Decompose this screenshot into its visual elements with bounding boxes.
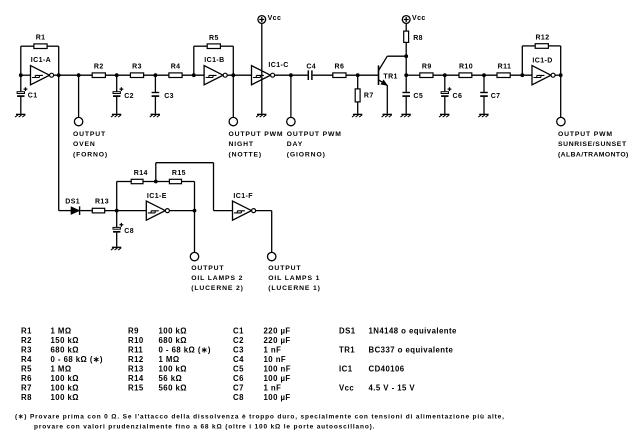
svg-text:IC1-B: IC1-B bbox=[204, 57, 224, 64]
wire bbox=[182, 74, 204, 76]
inverter IC1-A bbox=[31, 66, 50, 85]
svg-text:C6: C6 bbox=[453, 93, 463, 100]
wire bbox=[144, 74, 169, 76]
svg-text:OIL LAMPS 2: OIL LAMPS 2 bbox=[191, 275, 243, 282]
terminal OUTPUT OVEN bbox=[74, 117, 82, 125]
node C5 bbox=[404, 73, 408, 77]
svg-text:R4: R4 bbox=[21, 355, 32, 364]
svg-text:C1: C1 bbox=[28, 93, 38, 100]
svg-text:C4: C4 bbox=[306, 64, 316, 71]
svg-text:R10: R10 bbox=[128, 336, 144, 345]
svg-text:R4: R4 bbox=[171, 63, 181, 70]
capacitor C7 bbox=[483, 75, 485, 92]
svg-text:150 kΩ: 150 kΩ bbox=[51, 336, 79, 345]
wire bbox=[275, 74, 308, 76]
ground bbox=[257, 113, 266, 115]
terminal OUTPUT OIL LAMPS 1 bbox=[268, 252, 276, 260]
svg-text:IC1-F: IC1-F bbox=[233, 193, 253, 200]
svg-text:(FORNO): (FORNO) bbox=[73, 151, 108, 158]
ground bbox=[151, 113, 160, 115]
resistor R4 bbox=[169, 73, 182, 78]
svg-text:DAY: DAY bbox=[287, 141, 303, 148]
resistor R15 bbox=[169, 179, 181, 183]
resistor R8 bbox=[405, 24, 407, 32]
wire bbox=[194, 211, 196, 253]
svg-text:C8: C8 bbox=[233, 393, 244, 402]
wire bbox=[555, 74, 561, 76]
node IC1-B input bbox=[192, 73, 196, 77]
capacitor C5 bbox=[405, 75, 407, 92]
svg-text:R2: R2 bbox=[21, 336, 32, 345]
svg-text:provare con valori prudenzialm: provare con valori prudenzialmente fino … bbox=[34, 423, 375, 430]
svg-text:R13: R13 bbox=[95, 199, 109, 206]
terminal OUTPUT PWM SUNRISE/SUNSET bbox=[557, 117, 565, 125]
svg-text:DS1: DS1 bbox=[65, 199, 80, 206]
node output oven bbox=[77, 73, 81, 77]
svg-text:1N4148 o equivalente: 1N4148 o equivalente bbox=[369, 326, 458, 335]
inverter IC1-B bbox=[204, 66, 223, 85]
wire bbox=[20, 46, 22, 75]
svg-text:R2: R2 bbox=[94, 63, 104, 70]
wire bbox=[405, 56, 407, 75]
svg-text:4.5 V - 15 V: 4.5 V - 15 V bbox=[369, 384, 416, 393]
svg-text:1 MΩ: 1 MΩ bbox=[159, 355, 180, 364]
wire bbox=[143, 181, 169, 183]
svg-text:R9: R9 bbox=[128, 326, 139, 335]
svg-text:Vcc: Vcc bbox=[268, 15, 282, 22]
node IC1-A input bbox=[19, 73, 23, 77]
svg-text:OVEN: OVEN bbox=[73, 141, 96, 148]
svg-text:560 kΩ: 560 kΩ bbox=[159, 384, 187, 393]
terminal OUTPUT PWM NIGHT bbox=[229, 117, 237, 125]
capacitor C3 bbox=[154, 75, 156, 92]
svg-text:C1: C1 bbox=[233, 326, 244, 335]
svg-text:(ALBA/TRAMONTO): (ALBA/TRAMONTO) bbox=[558, 151, 629, 158]
resistor R10 bbox=[459, 73, 472, 78]
svg-text:R11: R11 bbox=[128, 345, 143, 354]
resistor R3 bbox=[130, 73, 143, 78]
wire bbox=[510, 74, 532, 76]
ground bbox=[383, 113, 392, 115]
svg-text:SUNRISE/SUNSET: SUNRISE/SUNSET bbox=[558, 141, 627, 148]
node IC1-D input bbox=[520, 73, 524, 77]
node C2 bbox=[115, 73, 119, 77]
svg-text:R9: R9 bbox=[422, 63, 432, 70]
transistor TR1 bbox=[378, 65, 380, 85]
svg-text:R1: R1 bbox=[21, 326, 32, 335]
node TR1 base bbox=[356, 73, 360, 77]
svg-text:1 nF: 1 nF bbox=[264, 384, 282, 393]
inverter IC1-E bbox=[146, 201, 165, 220]
wire bbox=[80, 210, 92, 212]
node TR1 collector bbox=[404, 54, 408, 58]
ground bbox=[353, 113, 362, 115]
svg-text:R7: R7 bbox=[21, 384, 32, 393]
svg-text:Vcc: Vcc bbox=[339, 384, 354, 393]
svg-text:680 kΩ: 680 kΩ bbox=[51, 345, 79, 354]
terminal OUTPUT OIL LAMPS 2 bbox=[190, 252, 198, 260]
wire bbox=[346, 74, 379, 76]
svg-text:OUTPUT PWM: OUTPUT PWM bbox=[287, 131, 342, 138]
wire bbox=[58, 75, 60, 210]
svg-text:BC337 o equivalente: BC337 o equivalente bbox=[369, 345, 454, 354]
ground bbox=[440, 113, 449, 115]
svg-text:1 MΩ: 1 MΩ bbox=[51, 365, 72, 374]
svg-text:OUTPUT: OUTPUT bbox=[73, 131, 106, 138]
svg-text:R6: R6 bbox=[21, 374, 32, 383]
wire bbox=[227, 74, 251, 76]
svg-text:C5: C5 bbox=[233, 365, 244, 374]
svg-text:IC1: IC1 bbox=[339, 365, 353, 374]
capacitor C6 bbox=[444, 75, 446, 92]
capacitor C8 bbox=[116, 211, 118, 228]
svg-text:OUTPUT: OUTPUT bbox=[268, 265, 301, 272]
resistor R14 bbox=[131, 179, 143, 183]
wire bbox=[220, 45, 233, 47]
resistor R5 bbox=[207, 44, 220, 49]
svg-text:R12: R12 bbox=[535, 34, 549, 41]
svg-text:100 kΩ: 100 kΩ bbox=[51, 384, 79, 393]
svg-text:C2: C2 bbox=[124, 93, 134, 100]
svg-text:R5: R5 bbox=[21, 365, 32, 374]
resistor R1 bbox=[34, 44, 47, 49]
capacitor C1 bbox=[20, 75, 22, 92]
wire bbox=[313, 74, 333, 76]
svg-text:R12: R12 bbox=[128, 355, 144, 364]
wire bbox=[521, 46, 523, 75]
svg-text:R14: R14 bbox=[134, 170, 148, 177]
wire bbox=[78, 75, 80, 117]
svg-text:1 nF: 1 nF bbox=[264, 345, 282, 354]
wire bbox=[116, 182, 118, 211]
node IC1-E input bbox=[115, 209, 119, 213]
svg-text:C7: C7 bbox=[233, 384, 244, 393]
svg-text:220 µF: 220 µF bbox=[264, 326, 291, 335]
svg-text:(∗) Provare prima con 0 Ω. Se: (∗) Provare prima con 0 Ω. Se l'attacco … bbox=[15, 413, 505, 420]
svg-text:TR1: TR1 bbox=[339, 345, 355, 354]
svg-text:100 kΩ: 100 kΩ bbox=[51, 374, 79, 383]
Vcc supply symbol bbox=[258, 16, 266, 24]
wire bbox=[548, 45, 560, 47]
wire bbox=[472, 74, 497, 76]
wire bbox=[433, 74, 459, 76]
svg-text:C8: C8 bbox=[124, 228, 134, 235]
wire bbox=[182, 181, 195, 183]
svg-text:1 MΩ: 1 MΩ bbox=[51, 326, 72, 335]
svg-text:(LUCERNE 2): (LUCERNE 2) bbox=[191, 285, 243, 292]
svg-text:100 kΩ: 100 kΩ bbox=[159, 326, 187, 335]
resistor R9 bbox=[420, 73, 433, 78]
resistor R11 bbox=[497, 73, 510, 78]
svg-text:IC1-D: IC1-D bbox=[532, 58, 552, 65]
wire bbox=[54, 74, 93, 76]
ground bbox=[112, 246, 121, 248]
svg-text:R15: R15 bbox=[172, 170, 186, 177]
node IC1-E output bbox=[193, 209, 197, 213]
svg-text:100 µF: 100 µF bbox=[264, 374, 291, 383]
wire bbox=[193, 46, 195, 75]
svg-text:R8: R8 bbox=[413, 35, 423, 42]
svg-text:R3: R3 bbox=[132, 63, 142, 70]
svg-text:(LUCERNE 1): (LUCERNE 1) bbox=[268, 285, 320, 292]
svg-text:R8: R8 bbox=[21, 393, 32, 402]
node IC1-D output bbox=[559, 73, 563, 77]
svg-text:TR1: TR1 bbox=[383, 73, 397, 80]
svg-text:100 kΩ: 100 kΩ bbox=[159, 365, 187, 374]
wire bbox=[21, 74, 31, 76]
svg-text:R10: R10 bbox=[459, 63, 473, 70]
svg-text:0 - 68 kΩ (∗): 0 - 68 kΩ (∗) bbox=[51, 355, 103, 364]
svg-text:56 kΩ: 56 kΩ bbox=[159, 374, 183, 383]
node IC1-A output bbox=[57, 73, 61, 77]
resistor R13 bbox=[92, 208, 104, 213]
svg-text:C7: C7 bbox=[491, 93, 501, 100]
svg-text:R14: R14 bbox=[128, 374, 144, 383]
node C6 bbox=[443, 73, 447, 77]
diode DS1 bbox=[71, 207, 79, 214]
inverter IC1-F bbox=[233, 201, 252, 220]
svg-text:100 kΩ: 100 kΩ bbox=[51, 393, 79, 402]
svg-text:CD40106: CD40106 bbox=[369, 365, 405, 374]
resistor R7 bbox=[357, 75, 359, 89]
svg-text:NIGHT: NIGHT bbox=[229, 141, 254, 148]
svg-text:OIL LAMPS 1: OIL LAMPS 1 bbox=[268, 275, 320, 282]
svg-text:100 nF: 100 nF bbox=[264, 365, 291, 374]
wire bbox=[47, 45, 59, 47]
node R14-R15 junction bbox=[154, 180, 158, 184]
ground bbox=[112, 113, 121, 115]
svg-text:DS1: DS1 bbox=[339, 326, 356, 335]
wire bbox=[560, 75, 562, 117]
wire bbox=[290, 75, 292, 117]
svg-text:C3: C3 bbox=[233, 345, 244, 354]
svg-text:R7: R7 bbox=[364, 93, 374, 100]
svg-text:OUTPUT PWM: OUTPUT PWM bbox=[558, 131, 613, 138]
svg-text:R1: R1 bbox=[36, 35, 46, 42]
svg-text:Vcc: Vcc bbox=[412, 15, 426, 22]
svg-text:220 µF: 220 µF bbox=[264, 336, 291, 345]
ground bbox=[479, 113, 488, 115]
Vcc supply symbol bbox=[402, 16, 410, 24]
resistor R2 bbox=[92, 73, 105, 78]
wire bbox=[261, 24, 263, 114]
terminal OUTPUT PWM DAY bbox=[287, 117, 295, 125]
resistor R6 bbox=[333, 73, 346, 78]
svg-text:C4: C4 bbox=[233, 355, 244, 364]
svg-text:R5: R5 bbox=[209, 35, 219, 42]
wire bbox=[256, 210, 272, 212]
capacitor C2 bbox=[116, 75, 118, 92]
wire bbox=[406, 74, 420, 76]
svg-text:C3: C3 bbox=[164, 93, 174, 100]
node IC1-C output bbox=[289, 73, 293, 77]
svg-text:(GIORNO): (GIORNO) bbox=[287, 151, 326, 158]
ground bbox=[401, 113, 410, 115]
svg-text:OUTPUT PWM: OUTPUT PWM bbox=[229, 131, 284, 138]
svg-text:R3: R3 bbox=[21, 345, 32, 354]
svg-text:R13: R13 bbox=[128, 365, 144, 374]
wire bbox=[155, 163, 157, 182]
wire bbox=[232, 75, 234, 117]
node IC1-B output bbox=[231, 73, 235, 77]
capacitor C4 bbox=[307, 70, 309, 80]
svg-text:R6: R6 bbox=[335, 63, 345, 70]
svg-text:0 - 68 kΩ (∗): 0 - 68 kΩ (∗) bbox=[159, 345, 211, 354]
wire bbox=[105, 210, 147, 212]
svg-text:IC1-C: IC1-C bbox=[268, 62, 288, 69]
svg-text:100 µF: 100 µF bbox=[264, 393, 291, 402]
inverter IC1-D bbox=[532, 66, 551, 85]
svg-text:R15: R15 bbox=[128, 384, 144, 393]
wire bbox=[169, 210, 194, 212]
svg-text:R11: R11 bbox=[498, 63, 512, 70]
svg-text:680 kΩ: 680 kΩ bbox=[159, 336, 187, 345]
node C7 bbox=[482, 73, 486, 77]
svg-text:IC1-A: IC1-A bbox=[31, 57, 51, 64]
wire bbox=[105, 74, 130, 76]
svg-text:C6: C6 bbox=[233, 374, 244, 383]
ground bbox=[16, 113, 25, 115]
svg-text:C2: C2 bbox=[233, 336, 244, 345]
inverter IC1-C bbox=[252, 66, 271, 85]
svg-text:C5: C5 bbox=[413, 93, 423, 100]
svg-text:10 nF: 10 nF bbox=[264, 355, 287, 364]
svg-text:(NOTTE): (NOTTE) bbox=[229, 151, 263, 158]
svg-text:OUTPUT: OUTPUT bbox=[191, 265, 224, 272]
svg-text:IC1-E: IC1-E bbox=[147, 193, 167, 200]
node C3 bbox=[154, 73, 158, 77]
resistor R12 bbox=[535, 44, 548, 49]
